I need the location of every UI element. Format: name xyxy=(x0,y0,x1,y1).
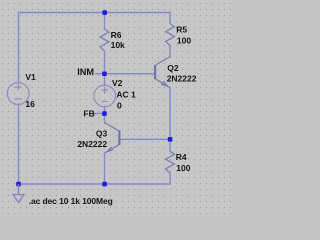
svg-text:AC 1: AC 1 xyxy=(116,90,136,100)
resistor R6 xyxy=(100,29,109,51)
svg-text:Q2: Q2 xyxy=(167,63,179,73)
svg-text:100: 100 xyxy=(176,163,190,173)
svg-text:2N2222: 2N2222 xyxy=(167,74,197,84)
wire bottom rail xyxy=(19,173,171,184)
wire INM label stub xyxy=(96,73,105,75)
voltage source V1 xyxy=(7,83,29,105)
junction FB node xyxy=(102,111,107,116)
svg-text:FB: FB xyxy=(83,109,94,119)
junction top rail / R6 xyxy=(102,10,107,15)
resistor R4 xyxy=(166,151,175,173)
svg-text:16: 16 xyxy=(25,99,35,109)
svg-text:2N2222: 2N2222 xyxy=(77,139,107,149)
voltage source V2 xyxy=(94,85,116,107)
wire Q3 emitter lead xyxy=(104,153,106,184)
wire INM to Q2 base xyxy=(105,73,155,75)
resistor R5 xyxy=(166,24,175,46)
wire R6 bottom lead to INM xyxy=(104,51,106,74)
wire top rail xyxy=(19,12,171,14)
wire V2 bottom lead xyxy=(104,107,106,114)
junction bottom rail / Q3 emitter xyxy=(102,182,107,187)
svg-text:10k: 10k xyxy=(111,40,125,50)
junction bottom rail left xyxy=(16,182,21,187)
svg-text:.ac dec 10 1k 100Meg: .ac dec 10 1k 100Meg xyxy=(29,196,113,206)
svg-text:R6: R6 xyxy=(111,30,122,40)
junction INM node xyxy=(102,71,107,76)
junction Q2 emitter / R4 / Q3 base xyxy=(168,137,173,142)
transistor Q3 xyxy=(105,123,120,154)
wire Q3 collector lead xyxy=(104,114,106,123)
wire V2 top lead xyxy=(104,74,106,86)
svg-text:100: 100 xyxy=(177,35,191,45)
wire R6 top lead xyxy=(104,13,106,29)
svg-text:INM: INM xyxy=(77,67,94,77)
svg-text:R5: R5 xyxy=(176,25,187,35)
svg-text:V2: V2 xyxy=(112,78,123,88)
wire Q2 emitter lead xyxy=(169,88,171,140)
wire R4 top lead xyxy=(169,139,171,151)
ground xyxy=(13,184,24,203)
wire FB label stub xyxy=(92,113,104,115)
wire V1 top lead xyxy=(18,13,20,83)
wire V1 bottom lead xyxy=(18,104,20,184)
wire R5 top lead xyxy=(169,13,171,24)
wire Q2 collector lead xyxy=(169,46,171,57)
svg-text:V1: V1 xyxy=(25,72,36,82)
transistor Q2 xyxy=(155,57,170,88)
wire Q3 base to junction xyxy=(120,138,170,140)
svg-text:Q3: Q3 xyxy=(96,128,108,138)
svg-text:0: 0 xyxy=(117,101,122,111)
svg-text:R4: R4 xyxy=(176,152,187,162)
